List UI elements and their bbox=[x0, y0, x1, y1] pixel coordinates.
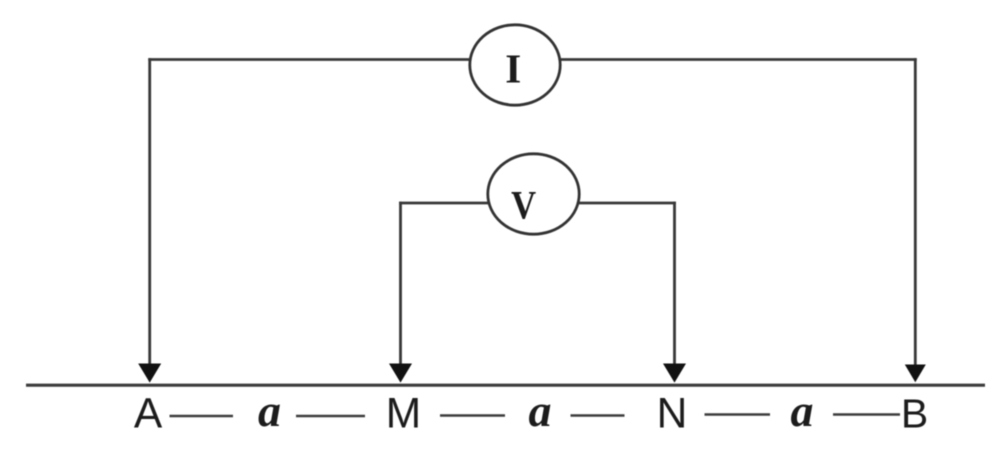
arrowhead at electrode B bbox=[905, 365, 926, 383]
arrowhead at electrode M bbox=[389, 364, 412, 383]
spacing dash a-N bbox=[571, 414, 625, 417]
wire: voltmeter horizontal right segment bbox=[578, 202, 676, 205]
wire: vertical from top wire to electrode A bbox=[148, 58, 151, 366]
svg-text:M: M bbox=[386, 391, 421, 438]
spacing dash a-M bbox=[296, 415, 365, 418]
wire: voltmeter horizontal left segment bbox=[399, 202, 489, 205]
svg-text:V: V bbox=[511, 183, 536, 228]
wire: vertical from voltmeter wire to electrode M bbox=[399, 202, 402, 366]
svg-text:N: N bbox=[657, 391, 688, 438]
ground surface line bbox=[26, 384, 985, 387]
spacing dash A-a bbox=[170, 415, 234, 418]
wire: ammeter top horizontal right segment bbox=[560, 58, 917, 61]
ammeter U1 circle bbox=[470, 25, 560, 105]
svg-text:A: A bbox=[134, 391, 163, 438]
svg-text:a: a bbox=[791, 385, 814, 436]
svg-text:a: a bbox=[529, 385, 552, 436]
spacing dash N-a bbox=[705, 413, 771, 416]
arrowhead at electrode A bbox=[138, 364, 161, 383]
spacing dash M-a bbox=[440, 414, 505, 417]
wire: vertical from voltmeter wire to electrode N bbox=[673, 202, 676, 366]
wire: vertical from top wire to electrode B bbox=[914, 58, 917, 366]
arrowhead at electrode N bbox=[663, 364, 686, 383]
svg-text:I: I bbox=[505, 46, 521, 92]
voltmeter U2 circle bbox=[488, 154, 579, 234]
wire: ammeter top horizontal left segment bbox=[148, 58, 470, 61]
svg-text:a: a bbox=[258, 385, 281, 436]
svg-text:B: B bbox=[901, 391, 928, 437]
spacing dash a-B bbox=[833, 413, 900, 416]
